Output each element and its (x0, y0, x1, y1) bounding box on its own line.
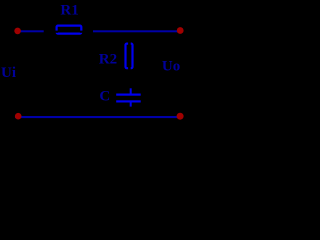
svg-text:C: C (99, 88, 110, 104)
resistor R2 (vertical) (126, 42, 133, 70)
svg-text:R1: R1 (60, 2, 78, 18)
resistor R1 (55, 26, 83, 34)
node: input - terminal (bottom-left, dark red) (15, 113, 22, 120)
wire: capacitor top lead stub (130, 88, 132, 93)
wire: capacitor bottom lead stub (130, 103, 132, 107)
wire: bottom rail (15, 116, 181, 118)
svg-text:Uo: Uo (162, 58, 180, 74)
svg-text:Ui: Ui (1, 65, 16, 81)
node: output + terminal (top-right, dark red) (177, 27, 184, 34)
node: input + terminal (top-left, dark red) (14, 28, 21, 35)
node: output - terminal (bottom-right, dark red) (177, 113, 184, 120)
svg-text:R2: R2 (99, 51, 117, 67)
wire: top rail left segment (input node to R1 left lead) (15, 30, 44, 32)
capacitor C bottom plate (116, 100, 141, 102)
wire: top rail right segment (R1 right lead to output node) (93, 30, 181, 32)
capacitor C top plate (116, 94, 141, 96)
